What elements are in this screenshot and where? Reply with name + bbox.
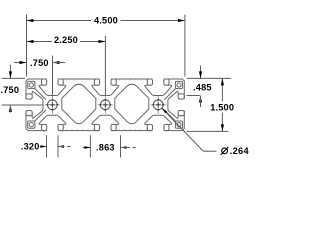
right side extension line top (profile top level) <box>187 77 232 79</box>
right side extension line bottom (profile bottom level) <box>187 130 229 132</box>
svg-text:.485: .485 <box>193 83 212 93</box>
extension line right edge vertical <box>184 15 186 77</box>
right end T-slot cavity <box>178 94 184 99</box>
svg-text:1.500: 1.500 <box>210 102 234 112</box>
extension lines .863 <box>89 135 91 157</box>
diamond cavity 2 <box>115 84 149 124</box>
svg-text:.863: .863 <box>96 142 115 152</box>
top T-slot cavity 3 <box>147 79 152 85</box>
corner boss top-left <box>28 81 35 88</box>
face serration ticks <box>67 79 147 131</box>
left end T-slot cavity <box>26 94 32 99</box>
svg-text:2.250: 2.250 <box>54 35 78 45</box>
top T-slot cavity 2 <box>94 79 99 85</box>
dimension .320 arrows and tails <box>40 146 47 148</box>
left side extension line top (profile top level) <box>2 77 26 79</box>
bottom T-slot cavity 3 <box>147 124 152 130</box>
profile outer boundary with T-slot openings <box>26 79 184 131</box>
dimension 4.500 line and arrows <box>27 20 92 22</box>
dimension .750 left vertical line and arrows <box>9 65 11 79</box>
dimension .750 top: outside arrows with tails <box>14 62 27 64</box>
corner boss top-right <box>175 81 182 88</box>
extension line profile centerline vertical (2.250) <box>104 36 106 96</box>
extension line left edge vertical <box>26 15 28 77</box>
top T-slot cavity 1 <box>42 79 47 85</box>
dimension 2.250 line and arrows <box>27 41 53 43</box>
dimension .863 arrows and tails <box>83 147 90 149</box>
bottom T-slot cavity 1 <box>42 124 47 130</box>
svg-text:4.500: 4.500 <box>94 15 118 25</box>
center bore circle 2 with crosshair <box>100 100 110 110</box>
left side centerline extension (mid height) <box>2 104 43 106</box>
diamond cavity 1 <box>62 84 96 124</box>
svg-text:.264: .264 <box>230 146 250 156</box>
svg-text:.320: .320 <box>21 141 40 151</box>
svg-text:.750: .750 <box>0 85 19 95</box>
right side extension line slot roof (.485) <box>187 95 200 97</box>
dimension 1.500 vertical line and arrows <box>221 78 223 101</box>
center bore circle 1 with crosshair <box>48 100 58 110</box>
dimension .485 vertical line and arrows <box>200 66 202 79</box>
dimension diameter .264 text <box>222 148 228 154</box>
center bore circle 3 with crosshair <box>153 100 163 110</box>
extension line slot1 center vertical <box>52 56 54 96</box>
leader line for diameter .264 <box>162 108 203 151</box>
svg-text:.750: .750 <box>30 58 49 68</box>
corner boss bottom-left <box>28 121 35 128</box>
corner boss bottom-right <box>175 121 182 128</box>
extension lines .320 <box>46 135 48 157</box>
bottom T-slot cavity 2 <box>94 124 99 130</box>
